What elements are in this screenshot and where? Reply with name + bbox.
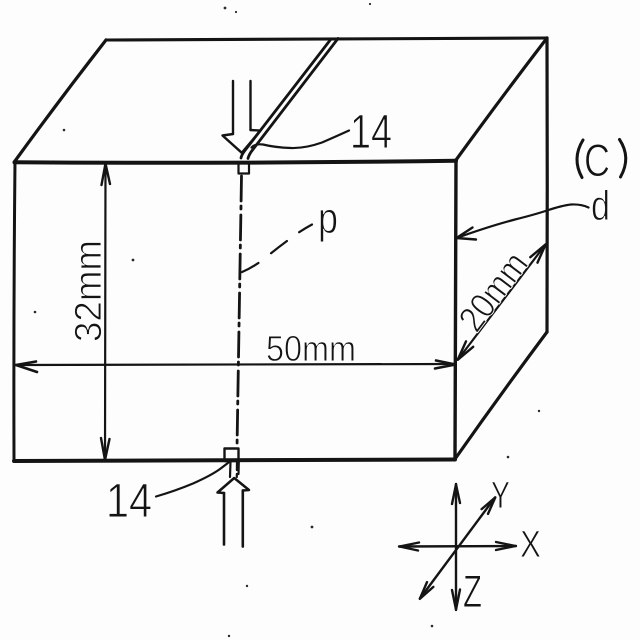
box front face bottom edge bbox=[14, 460, 455, 462]
dimension line 32mm bbox=[104, 164, 107, 460]
hollow arrow (bottom) left shaft bbox=[223, 493, 226, 545]
axes vertical arrowhead down (Z) bbox=[452, 590, 460, 610]
slot square 14 (bottom) bbox=[225, 449, 239, 462]
hollow arrow (bottom) right shaft bbox=[242, 491, 245, 547]
box bottom-right slant edge bbox=[455, 332, 547, 459]
svg-text:32mm: 32mm bbox=[68, 240, 110, 342]
svg-text:X: X bbox=[520, 524, 541, 566]
hollow arrow (bottom, pointing up) neck left bbox=[229, 462, 232, 477]
svg-text:Y: Y bbox=[491, 475, 510, 517]
20mm arrowhead upper bbox=[530, 244, 545, 262]
32mm arrowhead down bbox=[101, 438, 110, 460]
hollow arrow (top, pointing down) left shaft bbox=[232, 81, 234, 134]
box top-right slant edge bbox=[456, 38, 547, 160]
hollow arrow (bottom) neck right bbox=[237, 462, 240, 474]
svg-text:14: 14 bbox=[106, 475, 152, 528]
box front face top edge bbox=[15, 161, 457, 163]
dimension line 50mm bbox=[16, 364, 453, 365]
20mm arrowhead lower bbox=[458, 341, 474, 359]
box back top edge bbox=[106, 38, 547, 40]
box top-left slant edge bbox=[15, 40, 106, 161]
slit entrance square 14 (top) bbox=[239, 163, 250, 174]
coordinate axes horizontal line X bbox=[399, 545, 516, 548]
axes diagonal arrowhead upper (Y) bbox=[482, 497, 496, 514]
leader arrowhead at d bbox=[457, 228, 477, 240]
hollow arrow (bottom) head bbox=[218, 478, 250, 493]
svg-text:p: p bbox=[318, 194, 338, 243]
box back right vertical edge bbox=[545, 38, 548, 332]
slit groove line right on top face bbox=[248, 39, 338, 159]
dimension line 20mm bbox=[458, 245, 546, 360]
box front face right edge bbox=[455, 160, 456, 459]
leader line to d bbox=[457, 204, 589, 238]
32mm arrowhead up bbox=[102, 164, 111, 186]
svg-text:Z: Z bbox=[463, 566, 482, 617]
slit groove line left on top face bbox=[241, 39, 331, 158]
hollow arrow (top) right shaft bbox=[249, 81, 251, 130]
axes horizontal arrowhead right (X) bbox=[496, 542, 516, 550]
svg-text:C: C bbox=[584, 135, 610, 186]
leader line to bottom 14 bbox=[156, 463, 229, 497]
svg-text:d: d bbox=[591, 182, 610, 229]
svg-text:14: 14 bbox=[350, 106, 392, 159]
dashed centre line p bbox=[237, 176, 242, 448]
dashed leader line to p bbox=[241, 225, 312, 273]
coordinate axes diagonal line Y bbox=[420, 498, 495, 599]
svg-text:50mm: 50mm bbox=[266, 328, 356, 369]
50mm arrowhead right bbox=[435, 361, 456, 369]
50mm arrowhead left bbox=[16, 362, 37, 373]
paper specks bbox=[34, 3, 541, 637]
coordinate axes vertical line bbox=[455, 484, 457, 610]
dashed centre line stub below bottom edge bbox=[236, 462, 238, 477]
axes vertical arrowhead up bbox=[452, 485, 460, 505]
hollow arrow (top) head bbox=[223, 130, 261, 153]
leader line to top 14 bbox=[252, 131, 350, 149]
axes diagonal arrowhead lower bbox=[420, 582, 434, 599]
box front face left edge bbox=[14, 161, 15, 461]
axes horizontal arrowhead left bbox=[400, 543, 420, 551]
